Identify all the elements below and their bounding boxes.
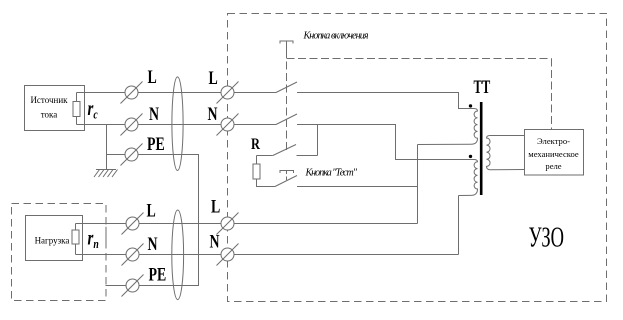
trip linkage dashed horizontal [287,58,552,60]
switch blade N pole [276,114,297,125]
svg-text:rс: rс [88,97,98,122]
label UZO [529,222,565,254]
terminal L load [122,213,144,235]
label L source [148,66,157,87]
cable ellipse bottom [172,210,184,300]
label relay text [528,136,579,171]
svg-text:R: R [251,136,261,154]
polarity dot winding 1 [469,104,472,107]
svg-text:ТТ: ТТ [474,78,491,98]
wire test pole right [297,155,318,157]
resistor rn leads [75,224,77,255]
label TT [474,78,491,98]
label L load [147,200,156,221]
svg-text:N: N [148,233,158,254]
dashed enclosure load boundary [12,204,107,301]
wire PE load [106,285,199,287]
svg-text:L: L [211,196,220,217]
wire N to ground [106,125,108,170]
box relay [525,130,584,176]
cable ellipse top [172,77,183,171]
switch blade L pole [276,82,297,93]
terminal N source [121,114,143,136]
label rc [88,97,98,122]
label L uzo-load [211,196,220,217]
label Кнопка включения [303,31,369,42]
ground [94,170,118,178]
label PE load [149,264,167,285]
terminal L source [121,82,143,104]
svg-text:Нагрузка: Нагрузка [35,236,70,246]
wire L load [76,223,418,225]
svg-text:rп: rп [88,226,99,251]
power button linkage dashed [286,50,288,151]
wire L source [77,92,277,94]
svg-text:Электро-: Электро- [537,136,570,146]
svg-text:реле: реле [545,161,561,171]
dashed enclosure UZO boundary [228,14,607,302]
resistor R leads [257,156,276,187]
trip linkage dashed vertical [551,59,553,130]
label rn [88,226,99,251]
label Источник тока [30,95,68,120]
CT secondary winding [487,136,525,170]
wire winding1 bottom to load L [417,145,419,224]
svg-text:L: L [209,67,218,88]
CT core [480,102,483,195]
label PE source [147,133,165,154]
label N source [149,103,159,124]
power button actuator [280,41,293,50]
svg-text:механическое: механическое [528,149,579,159]
CT primary winding 2 [459,160,478,196]
svg-text:Кнопка "Тест": Кнопка "Тест" [305,168,358,179]
wire L after switch [297,93,474,109]
polarity dot winding 2 [469,155,472,158]
svg-text:L: L [147,200,156,221]
svg-text:Кнопка включения: Кнопка включения [303,31,369,42]
svg-text:N: N [208,103,218,124]
CT primary winding 1 [418,109,478,145]
label N uzo-top [208,103,218,124]
terminal N uzo-load [217,244,239,266]
svg-text:N: N [149,103,159,124]
wire PE source [106,155,199,286]
label R [251,136,261,154]
label N uzo-load [210,231,220,252]
resistor R [253,164,260,179]
wire test to L-load junction [297,186,418,188]
label L uzo-top [209,67,218,88]
wire N load [76,254,459,256]
wire N source [77,124,277,126]
svg-text:PE: PE [147,133,165,154]
svg-text:PE: PE [149,264,167,285]
box load (Нагрузка) [26,216,83,261]
svg-text:Источник: Источник [30,95,68,105]
test button actuator [280,171,294,174]
wire load terminal bar [105,227,107,248]
resistor rn [72,230,79,244]
terminal L uzo-load [217,213,239,235]
wire winding2 bottom to load N [458,196,460,255]
svg-text:тока: тока [41,110,58,120]
box source (Источник тока) [25,86,85,131]
terminal L uzo-top [217,82,239,104]
terminal PE load [122,275,144,297]
svg-text:N: N [210,231,220,252]
terminal N uzo-top [217,114,239,136]
terminal N load [122,244,144,266]
test button stem dashed [286,171,288,182]
wire test pole left [257,155,273,157]
switch blade third pole [273,145,296,156]
resistor rc [73,102,80,117]
wire N tap vertical [317,125,319,156]
label Кнопка Тест [305,168,358,179]
label N load [148,233,158,254]
svg-text:L: L [148,66,157,87]
svg-text:УЗО: УЗО [529,222,565,254]
label Нагрузка [35,236,70,246]
terminal PE source [121,144,143,166]
wire N after switch [297,125,474,160]
switch blade test button [275,176,297,187]
resistor rc leads [76,93,78,125]
